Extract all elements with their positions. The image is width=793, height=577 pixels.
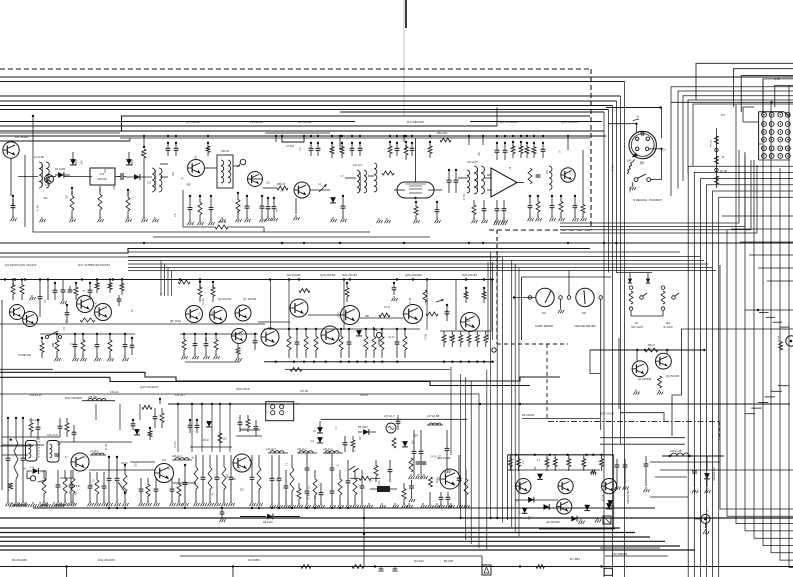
svg-text:C4 10: C4 10	[430, 457, 437, 459]
svg-text:C4 10: C4 10	[94, 301, 96, 308]
bottom bus 4	[0, 536, 650, 538]
component S2L2	[81, 333, 87, 361]
svg-text:C4 10: C4 10	[173, 442, 175, 449]
bus wire row2 D2	[128, 260, 704, 262]
resistor R31 2K	[382, 171, 394, 175]
label Q13b	[437, 456, 451, 460]
meter M2 CENTER	[567, 288, 602, 328]
AF box left	[507, 455, 509, 520]
component S3B1	[56, 470, 62, 506]
stair step low 0	[778, 385, 789, 387]
dashed boundary top	[0, 68, 591, 70]
svg-text:CA/RF METER: CA/RF METER	[535, 324, 553, 328]
coil L35	[427, 423, 443, 425]
bus wire 4	[0, 109, 609, 111]
svg-text:10K: 10K	[232, 479, 237, 481]
right column wire 5	[763, 79, 793, 546]
component S3U9	[351, 436, 355, 452]
s3 wire i	[240, 429, 260, 431]
s2 wire b	[308, 314, 340, 316]
mid bundle wire 1	[496, 252, 498, 518]
transistor Q31 2SC945	[656, 353, 672, 369]
svg-text:1N60: 1N60	[130, 160, 133, 167]
capacitor C16	[166, 142, 171, 156]
bottom bus 3	[0, 532, 635, 534]
capacitor C96	[346, 460, 352, 508]
right column wire 6	[771, 101, 793, 553]
svg-text:68P: 68P	[365, 316, 370, 318]
wire Q6 emitter	[295, 198, 297, 214]
svg-text:R86: R86	[120, 283, 123, 288]
capacitor C46	[502, 200, 508, 223]
stair step low 4	[751, 407, 762, 409]
svg-text:TONE SW: TONE SW	[18, 353, 31, 357]
svg-text:RL2: RL2	[666, 322, 671, 325]
diode D1 1N60	[55, 167, 70, 178]
label Q5	[500, 120, 518, 124]
bus wire AGC	[0, 81, 625, 83]
transistor Q1 DR JA10F	[3, 142, 19, 158]
ground	[377, 218, 383, 223]
transistor Q62	[557, 499, 572, 514]
svg-text:D1 1N60: D1 1N60	[55, 167, 66, 171]
component box bottom	[482, 565, 491, 575]
stair step low 5	[745, 413, 756, 415]
component S3B2	[63, 470, 69, 506]
pin grid wrap 3	[688, 100, 793, 174]
dashed boundary right	[590, 69, 592, 230]
resistor R13 220	[206, 142, 210, 156]
row1 signal wire	[484, 177, 491, 179]
component S3U6	[246, 415, 250, 432]
s3 ground row2 5	[45, 502, 51, 507]
resistor R126	[374, 460, 378, 482]
component M2	[304, 328, 308, 358]
s3 drop m	[139, 404, 141, 420]
mid bundle wire 0	[490, 252, 492, 518]
transistor Q30 2SC945	[632, 361, 648, 377]
capacitor C60	[38, 278, 43, 317]
svg-text:C50 3P: C50 3P	[360, 394, 369, 397]
capacitor C83	[131, 419, 136, 430]
wire Q1 emitter	[10, 158, 12, 196]
resistor RS5	[484, 331, 488, 347]
bus wire 3	[0, 105, 613, 107]
capacitor C92 3P	[305, 453, 310, 480]
bus wire row2 A	[0, 242, 793, 244]
wire 8b	[0, 132, 120, 134]
s3 ground row2 7	[59, 502, 65, 507]
resistor R12	[198, 195, 204, 225]
svg-text:10K: 10K	[280, 191, 285, 193]
wire s3 bottom rail	[33, 507, 655, 509]
transistor Q11	[23, 312, 38, 327]
wire D4 rail	[522, 418, 600, 420]
capacitor C50	[550, 195, 556, 221]
svg-text:R2 10k: R2 10k	[709, 140, 711, 148]
trimmer arrow	[319, 184, 327, 192]
IC U1 AN7218	[90, 168, 115, 185]
capacitor C48	[536, 175, 541, 177]
svg-text:R85: R85	[108, 283, 111, 288]
label bottom c	[248, 558, 260, 562]
svg-text:68P: 68P	[527, 516, 529, 521]
ground	[294, 215, 300, 220]
stair step low 3	[758, 402, 769, 404]
wire row1 lower rail	[153, 236, 430, 238]
resistor R117	[95, 472, 101, 506]
wire drop 2	[363, 534, 365, 567]
capacitor C40	[454, 169, 459, 193]
resistor R15	[236, 192, 242, 222]
tr corner 2	[741, 76, 793, 112]
diode D8 1S20	[240, 514, 300, 524]
capacitor C85	[183, 464, 189, 506]
right column wire 8	[789, 85, 793, 567]
svg-text:R96: R96	[464, 291, 467, 296]
svg-text:R89: R89	[198, 285, 201, 290]
transformer T2 L14C	[152, 168, 162, 192]
svg-text:10K: 10K	[601, 497, 603, 502]
svg-text:1S2: 1S2	[65, 195, 67, 200]
switch S2	[373, 327, 382, 345]
svg-text:D4 2SB4: D4 2SB4	[248, 558, 260, 562]
component S3U0	[58, 418, 63, 437]
capacitor C94 3P	[330, 453, 335, 480]
svg-text:1S2: 1S2	[210, 311, 212, 316]
right column h5	[600, 547, 660, 549]
s3 drop wire	[177, 404, 179, 452]
svg-text:R71 2.2: R71 2.2	[508, 458, 511, 467]
fan h wire 3	[749, 254, 793, 256]
right bundle wire 3	[616, 101, 618, 273]
resistor R50 1k	[350, 476, 380, 480]
row1 signal wire	[160, 176, 168, 178]
svg-text:Q6 2SC945: Q6 2SC945	[546, 520, 560, 524]
resistor AF6	[599, 455, 603, 471]
resistor R57	[591, 470, 596, 474]
label Q30	[638, 378, 652, 381]
wire corner C	[496, 108, 498, 127]
wire row1 bottom rail	[33, 155, 370, 232]
svg-text:C4 10: C4 10	[445, 310, 447, 317]
resistor R125	[353, 470, 359, 508]
wire mid C	[0, 393, 479, 395]
svg-text:68P: 68P	[171, 172, 173, 177]
capacitor C4 563	[11, 195, 17, 221]
svg-text:D07 2SC84: D07 2SC84	[462, 273, 477, 277]
branch bundle wire 1	[465, 377, 467, 540]
junction	[659, 106, 661, 108]
component M6	[364, 328, 368, 358]
transistor Q19	[404, 305, 423, 324]
capacitor C64	[65, 304, 70, 323]
resistor R61 68	[404, 141, 408, 160]
resistor R129	[29, 418, 33, 437]
dash-dot boundary v	[718, 421, 720, 440]
component S3D0	[194, 455, 200, 506]
label row2 c	[287, 273, 301, 277]
svg-text:D5 1N60: D5 1N60	[358, 426, 368, 429]
wire drop F	[468, 135, 470, 145]
right column wire 4	[754, 160, 793, 538]
bus rail R1	[0, 135, 606, 137]
relay RL2	[646, 279, 679, 329]
pin grid feed line	[671, 101, 793, 103]
capacitor C49	[528, 195, 534, 221]
wire	[620, 413, 664, 421]
right column h4	[650, 496, 688, 498]
wire link s2a	[47, 278, 49, 300]
coil L8	[467, 170, 470, 193]
svg-text:R52 3: R52 3	[648, 344, 655, 347]
svg-text:C4 10: C4 10	[384, 307, 391, 309]
svg-text:68P: 68P	[194, 156, 196, 161]
svg-text:MIC GAIN: MIC GAIN	[631, 326, 643, 329]
ground	[142, 217, 148, 222]
svg-text:R10 5.1K: R10 5.1K	[7, 483, 9, 492]
bus wire 9	[0, 140, 130, 142]
component S2L3	[95, 333, 101, 361]
component S3B0	[42, 470, 48, 506]
resistor RS3	[467, 331, 471, 347]
svg-text:1S2: 1S2	[223, 439, 228, 441]
fan h wire 2	[740, 241, 793, 243]
relay RL1	[628, 279, 647, 329]
capacitor C25	[260, 195, 266, 222]
component S3C1	[146, 478, 152, 506]
right bundle wire 0	[603, 112, 605, 577]
component S3B3	[69, 470, 75, 506]
ground	[501, 220, 507, 225]
stair family1 wire 1	[694, 172, 793, 577]
resistor R131 2	[536, 565, 544, 569]
label C84	[712, 467, 714, 481]
wire drop A	[32, 115, 34, 155]
mixer tube V1	[397, 182, 434, 199]
bus wire row2 D1	[128, 256, 700, 258]
scattered value labels	[22, 148, 667, 521]
transistor Q17	[290, 299, 308, 317]
ground	[385, 218, 391, 223]
right bundle wire 5	[624, 82, 626, 577]
capacitor C41	[482, 200, 488, 223]
dashed boundary lower	[497, 343, 568, 345]
capacitor C80	[107, 456, 113, 506]
capacitor C106	[102, 472, 108, 506]
wire to J1	[606, 107, 662, 109]
component S3A0	[6, 417, 12, 506]
svg-text:1S2: 1S2	[545, 170, 547, 175]
svg-text:Q26 2SC84: Q26 2SC84	[320, 273, 335, 277]
component M8	[380, 328, 384, 358]
svg-text:1S2: 1S2	[162, 460, 167, 462]
transistor Q18	[341, 306, 360, 325]
branch bundle wire 4	[486, 370, 488, 551]
row1 signal wire	[233, 165, 240, 167]
branch bundle wire 0	[460, 374, 462, 518]
svg-text:L34 1A-7: L34 1A-7	[323, 448, 333, 451]
wire Q13 collector drop	[450, 367, 452, 455]
capacitor C99	[445, 430, 451, 473]
bus wire 7	[0, 125, 497, 127]
coil L12	[90, 450, 106, 455]
meter M1 SIG	[528, 288, 562, 328]
stair family1 wire 2	[700, 179, 793, 577]
label row2 g	[462, 273, 477, 277]
AF box bottom	[539, 528, 615, 530]
component M5	[347, 328, 352, 358]
resistor R115	[257, 455, 263, 506]
capacitor C20	[188, 195, 194, 225]
diode D54 1N60	[358, 426, 376, 435]
resistor R63	[414, 201, 420, 223]
rail mid	[264, 328, 420, 330]
s3 drop wire	[229, 404, 231, 452]
capacitor C72 10V	[204, 333, 210, 359]
resistor R116	[71, 470, 77, 506]
s2 link wire 4	[455, 280, 457, 331]
capacitor C35	[395, 142, 400, 156]
label bottom b	[98, 558, 115, 562]
stepped wire pair 1	[0, 372, 560, 381]
resistor R145	[777, 336, 783, 350]
stair family1 wire 3	[707, 185, 793, 577]
s3 wire b	[173, 482, 196, 484]
svg-text:D17 JA78B D18 2SC531: D17 JA78B D18 2SC531	[78, 263, 110, 267]
wire s3 left link	[0, 445, 33, 447]
capacitor C91	[277, 455, 283, 508]
resistor R95 376	[426, 312, 438, 316]
capacitor C67	[53, 282, 58, 300]
capacitor C7	[118, 173, 126, 180]
resistor R91 100	[299, 289, 310, 293]
wire rb h2	[600, 443, 685, 445]
ground	[392, 296, 398, 301]
IFT box T3	[217, 150, 233, 188]
svg-text:D0 2SC84: D0 2SC84	[287, 273, 301, 277]
transistor Q63	[602, 479, 617, 494]
capacitor C103	[446, 492, 452, 508]
label Q16	[243, 297, 257, 301]
wire Q31 c	[666, 350, 668, 353]
svg-text:R81: R81	[11, 283, 14, 288]
wire J1 right lead	[649, 148, 663, 180]
component S2L5	[123, 333, 129, 361]
capacitor C97	[412, 430, 417, 476]
capacitor C111	[360, 470, 366, 508]
row1 signal wire	[368, 175, 374, 177]
svg-text:R6 1K: R6 1K	[203, 440, 210, 442]
coil L30 1A-7	[172, 455, 192, 460]
svg-text:R65 47: R65 47	[277, 182, 286, 186]
label mid c	[65, 396, 82, 400]
component M9	[395, 328, 400, 358]
capacitor C86	[188, 419, 193, 433]
wire jog A	[122, 116, 591, 131]
resistor R128	[464, 470, 470, 508]
wire rb corner	[590, 350, 600, 374]
stair step up 0	[759, 311, 769, 313]
resistor R6A 220	[437, 131, 451, 142]
svg-text:J10 L14T: J10 L14T	[467, 161, 478, 164]
transistor Q6 2SC535	[294, 182, 310, 198]
resistor R74	[532, 142, 536, 158]
svg-text:R76 2.2K: R76 2.2K	[582, 458, 585, 468]
component S3A1	[14, 417, 20, 506]
stair family1 wire 0	[688, 166, 793, 577]
row1 signal wire	[394, 189, 405, 191]
bus wire row2 D4	[128, 267, 712, 269]
s3 drop wire	[219, 404, 221, 452]
resistor R66	[472, 200, 478, 223]
svg-text:R6 1K: R6 1K	[628, 186, 630, 193]
stair family1 wire 4	[713, 191, 793, 577]
component S3D2	[208, 455, 214, 506]
ground	[494, 220, 500, 225]
resistor R75	[528, 168, 532, 184]
svg-text:R61: R61	[404, 145, 407, 150]
stair step low 1	[771, 390, 782, 392]
svg-text:C4 10: C4 10	[337, 312, 339, 319]
resistor R123 1k	[392, 438, 396, 448]
svg-text:R71: R71	[511, 145, 514, 150]
resistor AF4	[567, 455, 571, 471]
component S3D1	[201, 455, 207, 506]
svg-text:Q5 JA10: Q5 JA10	[170, 319, 181, 323]
diode D53 stack	[313, 421, 323, 443]
transformer T10 L19 L3-78	[10, 419, 41, 461]
svg-text:R6 1K: R6 1K	[449, 337, 456, 339]
diode D51	[134, 429, 140, 435]
wire drop E	[403, 135, 405, 142]
stair step up 1	[766, 316, 776, 318]
branch bundle wire 3	[478, 394, 480, 548]
svg-text:D62 2SC945: D62 2SC945	[626, 490, 629, 504]
wire J1 feed	[661, 108, 663, 139]
capacitor C21	[209, 195, 215, 225]
junction dots on rails	[108, 135, 618, 519]
wire L29 rail	[662, 455, 724, 457]
transistor Q60	[516, 479, 531, 494]
resistor AF2	[545, 455, 549, 471]
diode D75 varactor loop	[27, 467, 46, 482]
wire drop G	[482, 135, 484, 145]
component top rail	[120, 137, 590, 139]
left rail s3	[1, 300, 3, 490]
row1 signal wire	[64, 176, 92, 178]
trimmer arrows	[349, 466, 359, 472]
coil L6	[374, 163, 377, 192]
svg-text:C? 102: C? 102	[286, 144, 295, 148]
diode D67	[584, 505, 590, 511]
stair step low 2	[765, 396, 776, 398]
capacitor C17	[174, 142, 179, 156]
svg-text:D8 1S20: D8 1S20	[263, 521, 273, 524]
right bundle wire 1	[608, 110, 610, 273]
capacitor C98	[419, 430, 424, 476]
svg-text:R22 1k: R22 1k	[218, 220, 227, 224]
svg-text:D-9 DET/MP: D-9 DET/MP	[407, 120, 424, 124]
wire	[159, 399, 161, 404]
svg-text:Q4 2SC64 Q7H 2SC147: Q4 2SC64 Q7H 2SC147	[5, 263, 37, 267]
resistor R132	[352, 565, 364, 569]
component S3D3	[215, 455, 221, 506]
component S3U1	[65, 418, 69, 437]
fan h wire 4	[758, 267, 793, 269]
svg-text:L36 1R1: L36 1R1	[88, 396, 98, 399]
svg-text:10K: 10K	[147, 183, 152, 185]
